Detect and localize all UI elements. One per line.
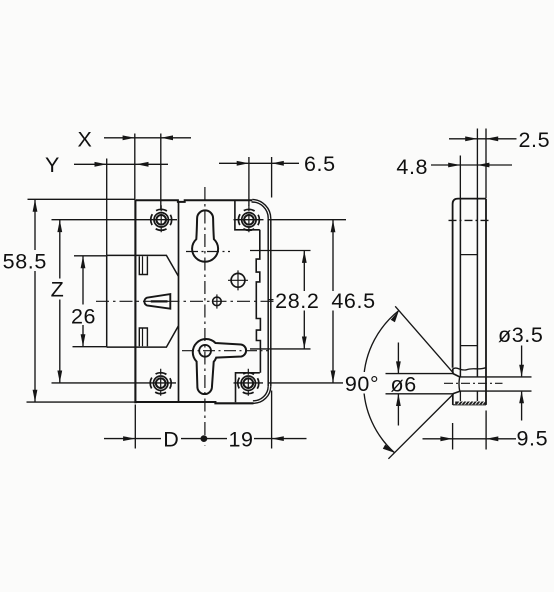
90 upper diagonal xyxy=(395,306,453,373)
case top edge xyxy=(136,200,253,202)
D left extension line xyxy=(134,405,136,449)
6.5 left arrowhead xyxy=(237,161,249,166)
latch bracket upper tab xyxy=(139,256,147,274)
flange left face lower xyxy=(452,394,454,405)
28.2 dimension line xyxy=(303,251,305,349)
svg-text:ø6: ø6 xyxy=(391,373,417,397)
26 bottom arrowhead xyxy=(81,334,86,346)
center line 28.2 leader stub xyxy=(269,299,278,301)
6.5 right extension line xyxy=(271,157,273,198)
case left edge xyxy=(134,199,136,403)
label 26 xyxy=(71,305,97,329)
2.5 right extension line xyxy=(485,129,487,199)
case bottom-right corner outer arc xyxy=(254,386,271,403)
26 top extension line xyxy=(74,255,107,257)
flange inner wall stub left xyxy=(459,391,461,401)
90 arc lower arrowhead xyxy=(383,445,395,453)
X right extension line xyxy=(160,134,162,210)
26 top arrowhead xyxy=(81,256,86,268)
svg-text:19: 19 xyxy=(228,428,253,452)
58.5 top extension line xyxy=(28,198,136,200)
bottom key cam cutout xyxy=(193,339,246,394)
3.5 arrow line lower xyxy=(521,392,523,421)
bottom key circle horizontal center line xyxy=(182,350,268,352)
X left arrowhead xyxy=(123,135,135,140)
keyhole plate castellated right edge xyxy=(256,230,260,373)
46.5 dimension line xyxy=(332,220,334,383)
3.5 lower arrowhead xyxy=(519,391,524,403)
side view break wave xyxy=(453,368,486,370)
svg-text:9.5: 9.5 xyxy=(517,427,549,451)
svg-text:58.5: 58.5 xyxy=(3,250,47,274)
latch bracket lower tab inner line xyxy=(142,328,144,346)
screw hole bottom-right vertical tick xyxy=(247,369,249,398)
Y right arrowhead xyxy=(136,162,148,167)
26 dimension line xyxy=(82,256,84,347)
side view slot lower tick xyxy=(460,345,477,347)
case top-right corner inner arc xyxy=(252,202,269,218)
text labels with white backing xyxy=(1,128,550,452)
D left arrowhead xyxy=(123,436,135,441)
hole wall line upper xyxy=(460,376,532,378)
bottom hole row line right hole part xyxy=(234,382,264,384)
svg-text:2.5: 2.5 xyxy=(519,128,551,152)
4.8 dimension line xyxy=(431,164,512,166)
screw hole top-right vertical tick xyxy=(248,205,250,234)
Z bottom arrowhead xyxy=(57,371,62,383)
center line horizontal main xyxy=(96,300,276,302)
screw hole top-left xyxy=(151,209,172,230)
svg-text:46.5: 46.5 xyxy=(331,289,375,313)
label 28.2 xyxy=(274,289,322,313)
case bottom edge xyxy=(136,402,254,403)
screw hole bottom-right xyxy=(238,373,259,394)
screw hole bottom-left xyxy=(150,373,171,394)
screw hole top-left vertical tick xyxy=(160,205,162,234)
28.2 top extension line xyxy=(250,250,311,252)
6 upper arrowhead xyxy=(396,361,401,373)
svg-text:6.5: 6.5 xyxy=(304,152,336,176)
keyhole vertical center line xyxy=(204,187,206,446)
4.8 left extension line xyxy=(459,156,461,199)
6 lower extension line xyxy=(386,393,454,395)
D right extension line xyxy=(271,391,273,449)
90 arc upper arrowhead xyxy=(391,311,399,323)
case right edge inner line xyxy=(267,218,269,386)
small center marker vertical tick xyxy=(216,294,218,308)
side view left wall lower xyxy=(452,369,454,374)
countersink upper slant xyxy=(453,374,460,378)
6 arrow line upper xyxy=(397,343,399,374)
svg-text:X: X xyxy=(78,128,93,152)
svg-text:28.2: 28.2 xyxy=(275,289,319,313)
svg-text:4.8: 4.8 xyxy=(396,155,428,179)
keyhole plate top-right screw tab notch xyxy=(235,200,260,230)
countersink hole near wall xyxy=(458,377,461,391)
Y left arrowhead xyxy=(95,162,107,167)
label D xyxy=(161,428,181,452)
screw hole bottom-left vertical tick xyxy=(160,369,162,398)
6 arrow line lower xyxy=(397,394,399,425)
countersink lower slant xyxy=(453,391,460,394)
2.5 left arrowhead xyxy=(465,136,477,141)
58.5 bottom extension line xyxy=(27,401,136,403)
keyhole plate left edge xyxy=(178,201,180,401)
top keyhole circle horizontal center line xyxy=(186,251,230,253)
top keyhole cutout xyxy=(192,210,218,261)
6 lower arrowhead xyxy=(396,394,401,406)
28.2 bottom extension line xyxy=(250,348,311,350)
46.5 top arrowhead xyxy=(331,220,336,232)
D 19 dimension line xyxy=(104,438,307,440)
4.8 right arrowhead xyxy=(477,163,489,168)
label 58.5 xyxy=(1,250,49,274)
side view inner wall 4.8 right xyxy=(476,199,478,377)
9.5 right extension line xyxy=(485,411,487,450)
6.5 left extension line xyxy=(248,157,250,206)
svg-text:ø3.5: ø3.5 xyxy=(498,323,543,347)
6.5 dimension line xyxy=(219,162,299,164)
latch bracket lower tab xyxy=(139,328,147,346)
X dimension line xyxy=(104,137,191,139)
26 bottom extension line xyxy=(73,346,108,348)
58.5 top arrowhead xyxy=(33,200,38,212)
latch bracket bottom edge and diagonal xyxy=(107,326,179,347)
6.5 right arrowhead xyxy=(272,161,284,166)
side view left wall xyxy=(452,204,454,368)
label 90 degrees xyxy=(344,372,383,396)
keyhole plate bottom-right screw tab notch xyxy=(236,373,260,402)
2.5 left extension line xyxy=(476,129,478,199)
svg-text:90°: 90° xyxy=(345,372,379,396)
bottom hole row extension to 46.5 xyxy=(269,382,344,384)
9.5 dimension line xyxy=(423,438,517,440)
58.5 dimension line xyxy=(34,200,36,403)
latch bracket top edge and diagonal xyxy=(107,255,179,276)
cross-hole marker mid right crosshair xyxy=(228,270,248,290)
28.2 top arrowhead xyxy=(302,251,307,263)
side view inner wall 4.8 right lower stub xyxy=(476,391,478,401)
latch bracket left flange xyxy=(106,255,108,347)
4.8 left arrowhead xyxy=(448,163,460,168)
cross-hole marker mid right xyxy=(231,273,245,287)
58.5 bottom arrowhead xyxy=(33,390,38,402)
46.5 bottom arrowhead xyxy=(331,371,336,383)
9.5 left extension line xyxy=(452,423,454,450)
90 lower diagonal xyxy=(388,394,453,459)
bottom key cam inner hole xyxy=(199,345,211,357)
Y dimension line xyxy=(74,163,168,165)
case bottom-right corner inner arc xyxy=(253,386,268,401)
top hole row line right hole part xyxy=(234,219,264,221)
3.5 arrow line upper xyxy=(521,346,523,377)
9.5 left arrowhead xyxy=(440,436,452,441)
flange hatched bottom band xyxy=(455,401,485,404)
svg-text:Y: Y xyxy=(45,153,60,177)
28.2 bottom arrowhead xyxy=(302,337,307,349)
label 19 xyxy=(227,428,254,452)
side view top edge xyxy=(453,199,486,204)
6 upper extension line xyxy=(386,373,454,375)
flange hole center line dash-dot across side view xyxy=(444,382,503,384)
flange bottom edge xyxy=(453,404,486,406)
label Z xyxy=(47,278,68,302)
D right arrowhead xyxy=(272,436,284,441)
2.5 right arrowhead xyxy=(486,136,498,141)
case right edge outer line xyxy=(270,219,272,387)
2.5 dimension line xyxy=(449,138,517,140)
latch bracket upper tab inner line xyxy=(142,256,144,274)
side view inner wall 4.8 left xyxy=(459,199,461,377)
svg-text:26: 26 xyxy=(71,305,96,329)
svg-text:Z: Z xyxy=(51,278,65,302)
side view slot upper tick xyxy=(460,254,477,256)
screw hole top-right xyxy=(238,209,259,230)
case top-right corner outer arc xyxy=(252,199,270,218)
X right arrowhead xyxy=(161,135,173,140)
top hole row line left part xyxy=(52,219,178,221)
hole wall line lower xyxy=(460,390,532,392)
D 19 center dot xyxy=(201,435,208,442)
latch wedge inner line xyxy=(151,300,168,302)
Z top arrowhead xyxy=(57,220,62,232)
small center marker xyxy=(213,297,222,306)
top hole row dash-dot across side view xyxy=(449,219,491,221)
Z dimension line xyxy=(59,220,61,383)
X left extension line xyxy=(134,134,136,200)
label 46.5 xyxy=(330,289,378,313)
90 arc xyxy=(364,311,399,453)
Y left extension line xyxy=(106,159,108,256)
9.5 right arrowhead xyxy=(486,436,498,441)
svg-text:D: D xyxy=(163,428,179,452)
side view right wall xyxy=(485,199,487,405)
bottom hole row line left part xyxy=(52,382,177,384)
latch wedge pointer xyxy=(144,294,170,309)
top hole row extension to 46.5 xyxy=(269,219,347,221)
3.5 upper arrowhead xyxy=(519,365,524,377)
